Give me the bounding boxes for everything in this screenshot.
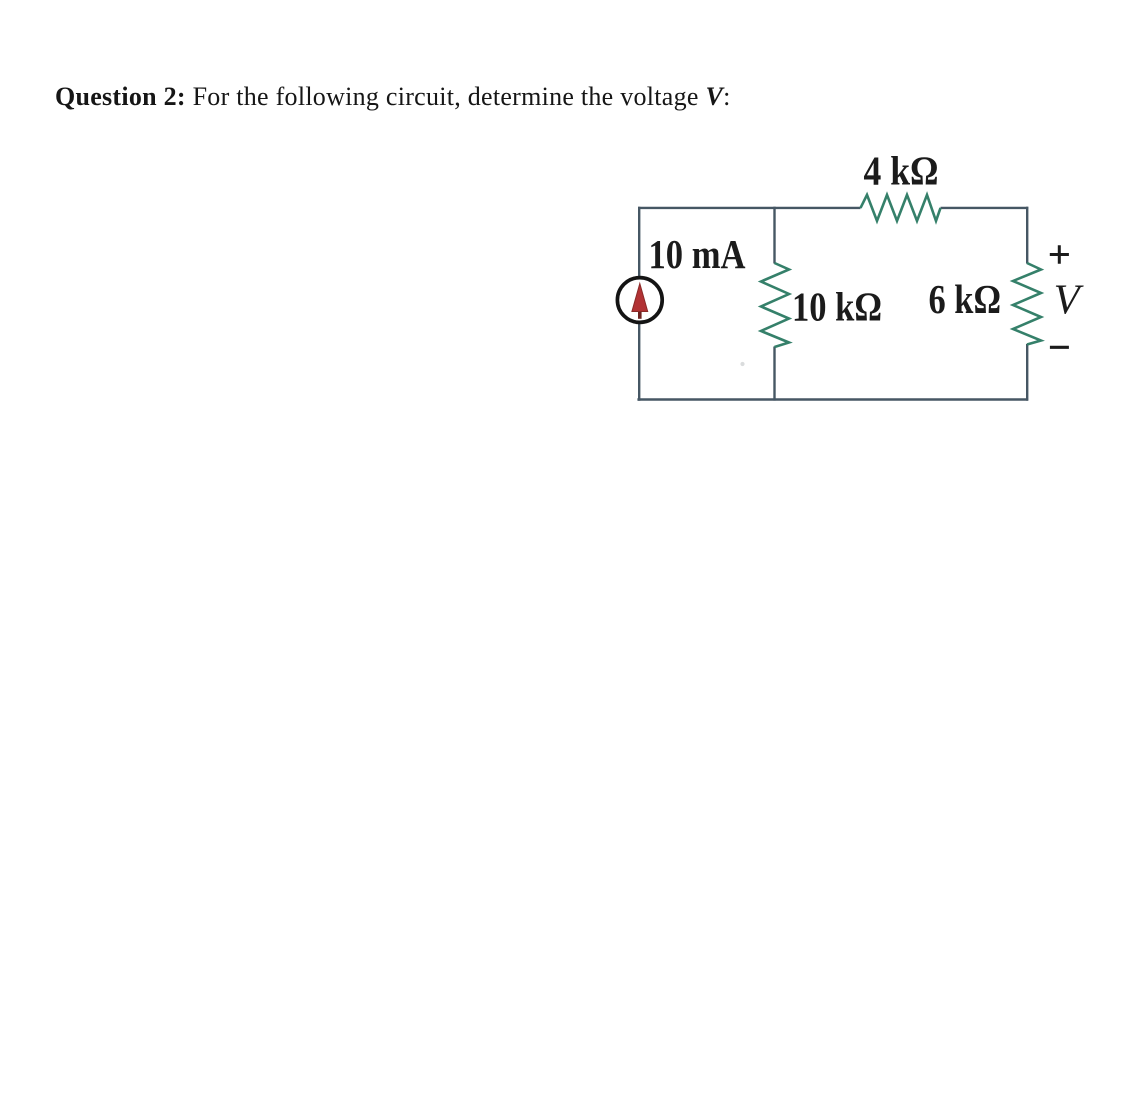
resistor R 6k zigzag [1013, 263, 1041, 345]
svg-text:10 mA: 10 mA [649, 231, 746, 277]
stray faint mark [740, 362, 744, 366]
current source arrow head [632, 284, 648, 312]
wire top-left segment [638, 207, 861, 209]
svg-text:4 kΩ: 4 kΩ [864, 148, 939, 194]
svg-text:10 kΩ: 10 kΩ [792, 284, 882, 330]
question text [55, 82, 731, 111]
wire middle branch lower [773, 347, 775, 401]
current source arrow shaft [638, 307, 642, 319]
wire top-right segment [941, 207, 1029, 209]
wire right branch upper [1026, 207, 1028, 264]
minus sign [1050, 346, 1069, 349]
plus sign [1050, 245, 1069, 264]
wire right branch lower [1026, 344, 1028, 401]
wire middle branch upper [773, 207, 775, 264]
svg-text:V: V [1054, 277, 1085, 324]
wire bottom [637, 398, 1028, 400]
resistor R 10k zigzag [761, 263, 789, 347]
current source I1 circle [617, 278, 662, 323]
resistor R 4k zigzag [861, 195, 941, 221]
svg-text:6 kΩ: 6 kΩ [929, 276, 1002, 322]
wire left branch lower [638, 322, 640, 401]
wire left branch upper [638, 207, 640, 278]
